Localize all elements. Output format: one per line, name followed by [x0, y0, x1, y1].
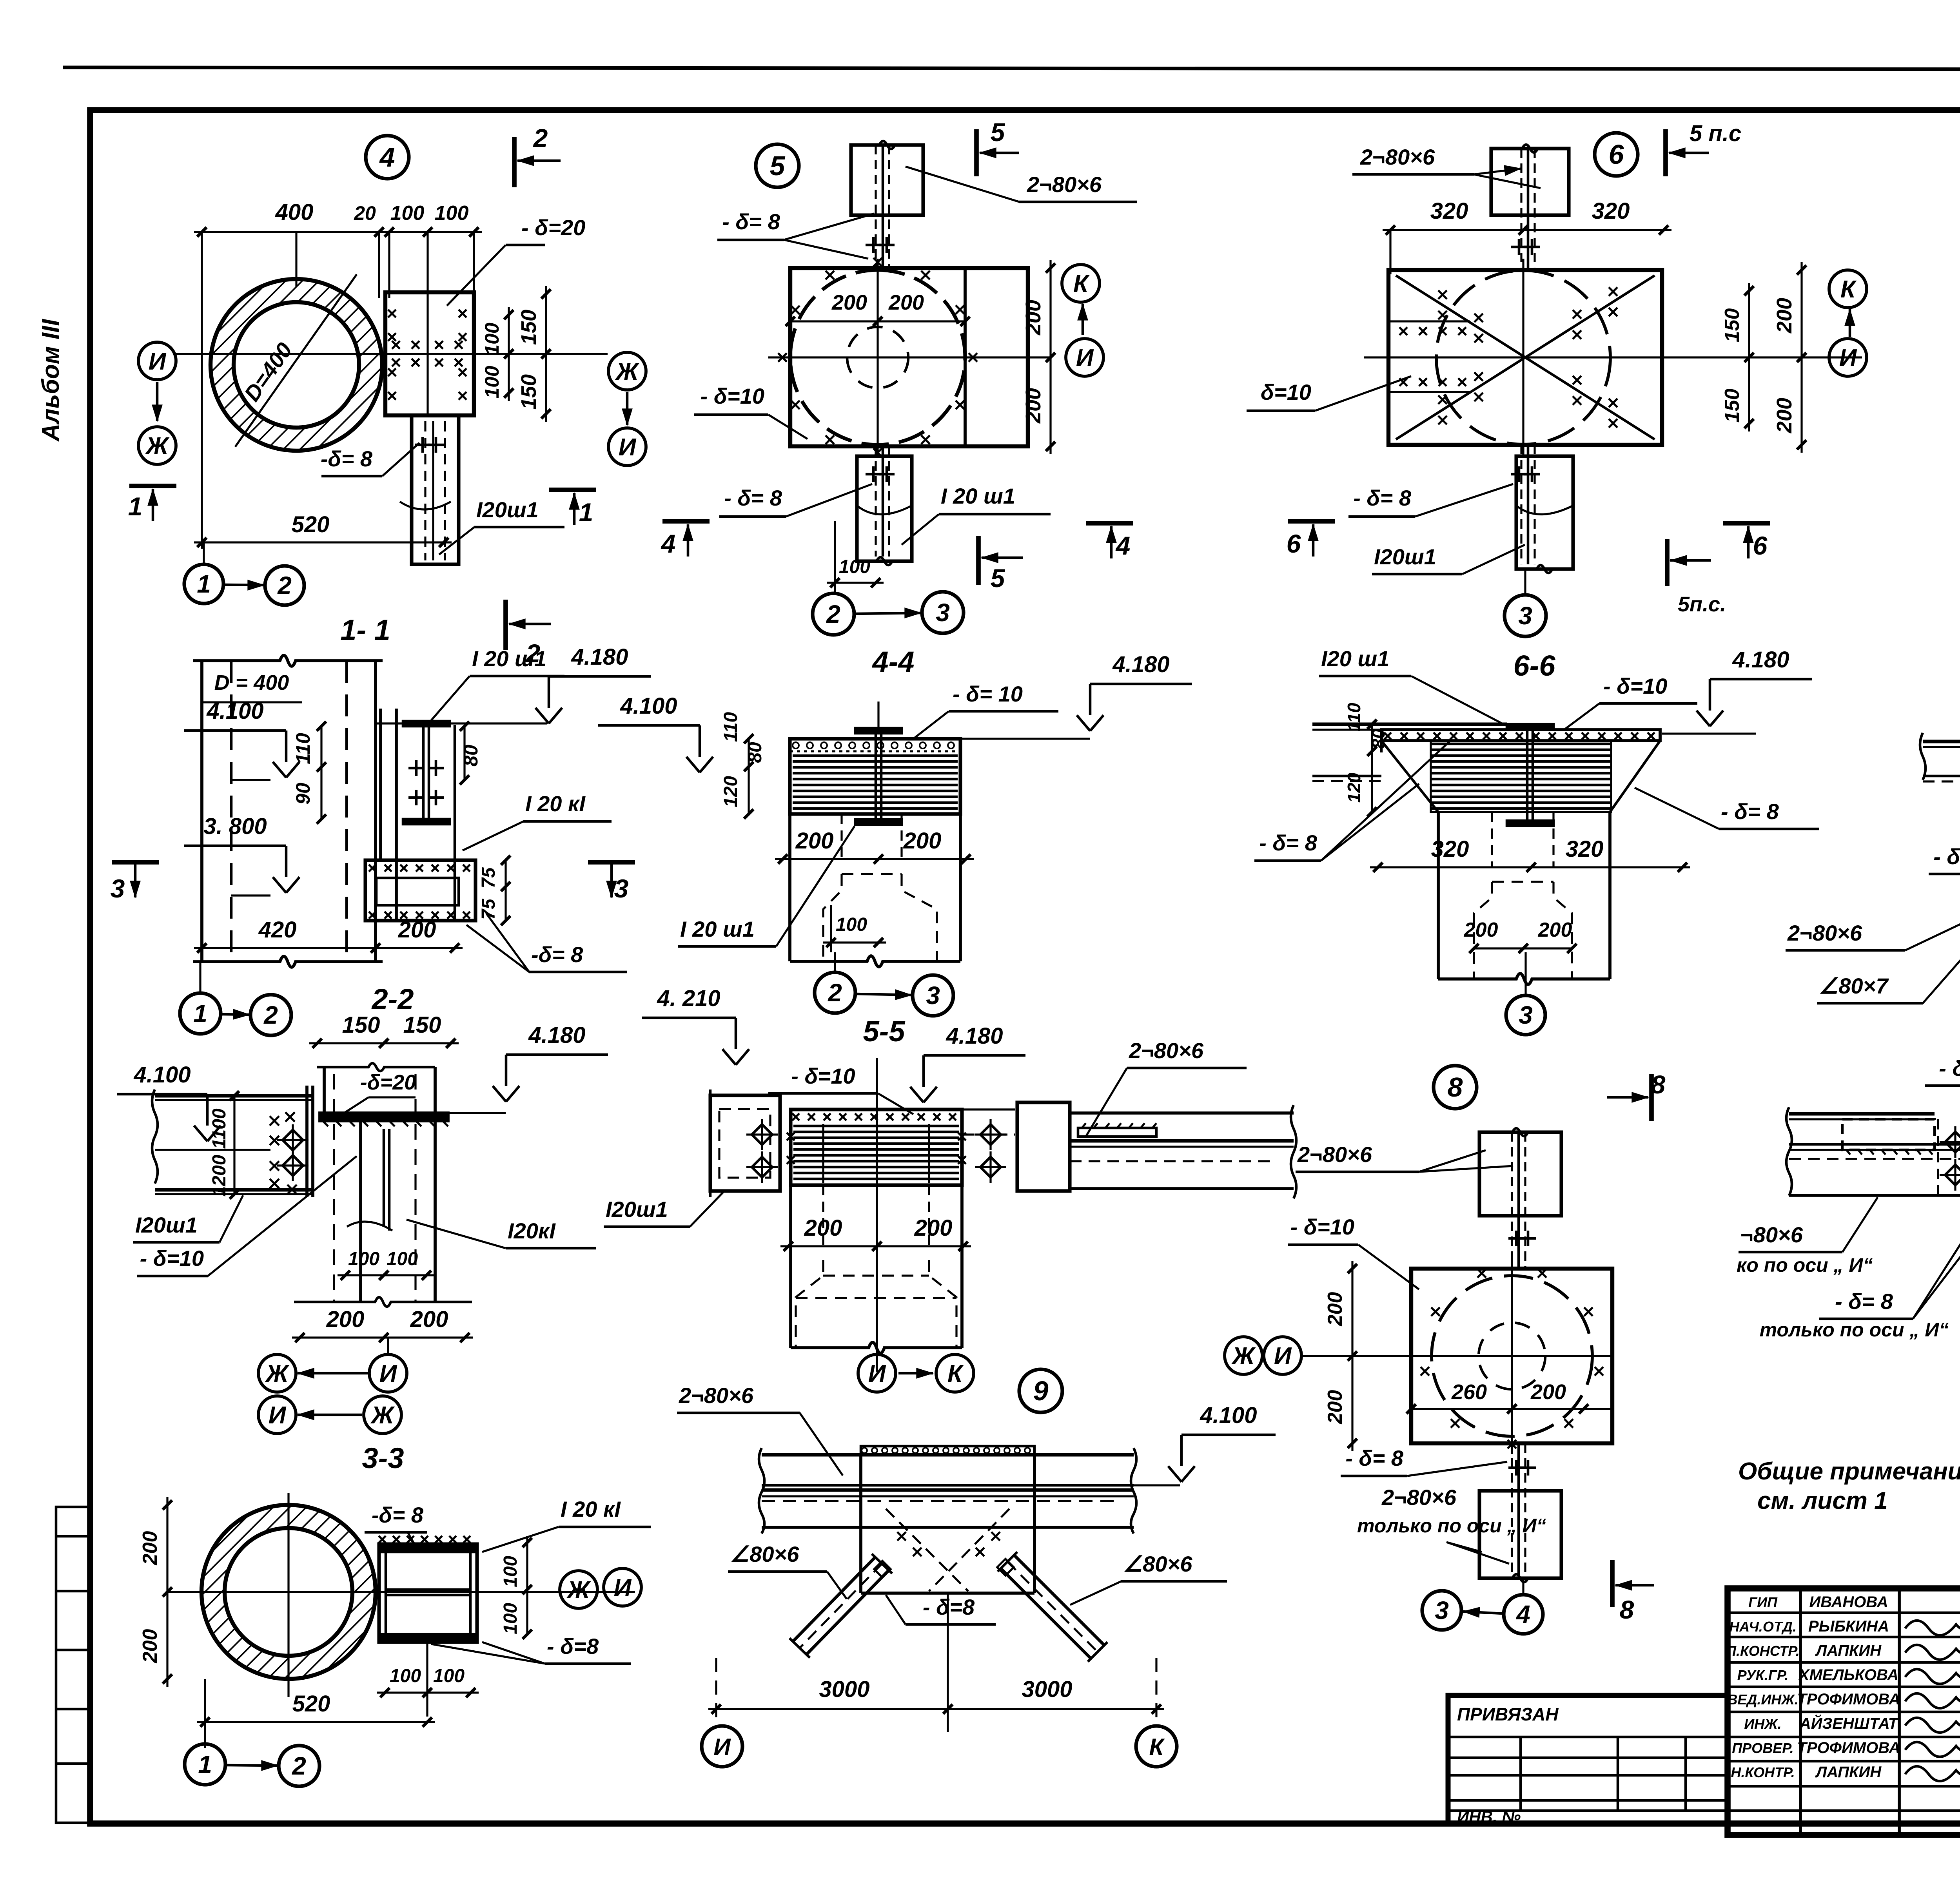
svg-text:2: 2 [828, 979, 842, 1007]
svg-text:4. 210: 4. 210 [657, 986, 720, 1011]
section mark 4 left [662, 519, 710, 524]
svg-text:К: К [1840, 276, 1857, 303]
svg-text:100: 100 [839, 557, 870, 577]
svg-text:3. 800: 3. 800 [203, 814, 267, 839]
section 2-2 dims 1100 1200 [233, 1096, 235, 1194]
svg-text:только по оси „ И“: только по оси „ И“ [1357, 1515, 1546, 1537]
svg-text:200: 200 [1538, 919, 1572, 941]
node 6 diagonal gusset braces [1396, 276, 1655, 439]
section mark 2 top [512, 137, 517, 187]
svg-text:Ж: Ж [145, 433, 170, 460]
section 1-1 dim chain 75 75 [505, 860, 506, 921]
node 4 right dim chain 100 100 [508, 307, 510, 401]
svg-text:I 20 кI: I 20 кI [525, 791, 586, 816]
section 8-8 left upper block [1842, 1119, 1935, 1150]
section 5-5 left beam block [710, 1095, 780, 1191]
node 5 base plate [790, 268, 1028, 446]
node 5 dim 100 bottom [834, 521, 836, 592]
node marker circle 4 [366, 136, 409, 179]
node 5 axis circle И [1066, 339, 1103, 376]
node 9 gusset diagonals [886, 1509, 968, 1591]
svg-text:80: 80 [460, 745, 482, 767]
svg-text:I20ш1: I20ш1 [1374, 544, 1436, 569]
section mark 1 left [129, 484, 176, 488]
section 2-2 bottom dims 200 200 [292, 1336, 473, 1338]
svg-text:520: 520 [292, 512, 330, 537]
svg-text:3: 3 [1519, 1001, 1533, 1029]
section 5-5 dashed pedestal [796, 1260, 823, 1348]
svg-text:- δ=10: - δ=10 [1939, 1056, 1960, 1080]
section mark 3 right [588, 860, 635, 865]
section mark 5ps top [1663, 129, 1668, 176]
node 5 column above [851, 145, 923, 215]
section 2-2 top dims 150 150 [309, 1042, 459, 1044]
svg-text:РУК.ГР.: РУК.ГР. [1737, 1667, 1789, 1683]
svg-text:I 20 ш1: I 20 ш1 [680, 917, 755, 941]
node 5 axis circle K [1062, 265, 1100, 302]
svg-text:ПРИВЯЗАН: ПРИВЯЗАН [1457, 1704, 1559, 1724]
svg-text:2-2: 2-2 [371, 983, 414, 1015]
attachment table grid [1448, 1736, 1728, 1738]
node 8 column below [1479, 1491, 1561, 1578]
svg-text:2: 2 [277, 571, 292, 600]
svg-text:4-4: 4-4 [872, 645, 915, 678]
svg-text:∠80×7: ∠80×7 [1819, 973, 1889, 998]
svg-text:9: 9 [1033, 1376, 1049, 1406]
section mark 1 right [549, 488, 596, 492]
node 4 column below [412, 415, 459, 564]
svg-text:4.180: 4.180 [1112, 652, 1169, 677]
section 5-5 weld x left edge [787, 1133, 795, 1140]
svg-text:- δ=10: - δ=10 [1603, 674, 1667, 698]
section 5-5 center axis line [876, 1058, 878, 1372]
svg-text:Ж: Ж [1231, 1343, 1256, 1370]
node 6 column above [1491, 149, 1569, 215]
node 4 top dimension chain 400-20-100-100 [194, 231, 387, 233]
svg-text:2¬80×6: 2¬80×6 [1381, 1485, 1457, 1510]
svg-text:- δ=10: - δ=10 [791, 1064, 855, 1088]
svg-text:4: 4 [661, 529, 676, 558]
detail 3-3 bottom dims 100 100 [377, 1691, 479, 1693]
svg-text:-δ= 8: -δ= 8 [372, 1503, 424, 1527]
svg-text:8: 8 [1448, 1072, 1463, 1102]
node 4 axis circle Ж left [138, 427, 176, 464]
svg-text:ИВАНОВА: ИВАНОВА [1809, 1593, 1888, 1611]
node marker circle 6 [1595, 133, 1638, 176]
svg-text:-δ= 8: -δ= 8 [531, 942, 583, 967]
section mark 8 bottom [1610, 1560, 1615, 1607]
section 2-2 end plate pair [305, 1086, 309, 1197]
svg-text:И: И [379, 1360, 397, 1387]
svg-text:150: 150 [1721, 389, 1744, 423]
svg-text:2: 2 [826, 600, 840, 628]
svg-text:δ=10: δ=10 [1261, 380, 1311, 404]
node 6 axis circle K [1829, 270, 1867, 308]
svg-text:5-5: 5-5 [863, 1015, 906, 1048]
svg-text:ВЕД.ИНЖ.: ВЕД.ИНЖ. [1727, 1691, 1798, 1708]
section 4-4 bottom break [790, 956, 960, 967]
node 8 column above [1479, 1132, 1561, 1216]
svg-text:6: 6 [1287, 529, 1301, 558]
svg-text:- δ= 8: - δ= 8 [722, 209, 780, 234]
svg-text:150: 150 [403, 1012, 441, 1038]
section mark 5ps bottom [1665, 539, 1670, 586]
section 7-7 left beam [1923, 740, 1960, 743]
svg-text:1: 1 [197, 570, 211, 598]
svg-text:I20 ш1: I20 ш1 [1321, 646, 1389, 671]
svg-text:∠80×6: ∠80×6 [730, 1542, 799, 1566]
svg-text:ИНЖ.: ИНЖ. [1744, 1716, 1781, 1732]
section 2-2 web wavy cut [347, 1222, 392, 1231]
svg-text:200: 200 [1324, 1390, 1347, 1425]
section 1-1 channel bracket [365, 860, 475, 921]
svg-text:Ж: Ж [265, 1360, 290, 1387]
detail 3-3 dim 520 [197, 1721, 435, 1723]
svg-text:К: К [947, 1360, 964, 1387]
svg-text:- δ= 8: - δ= 8 [1835, 1289, 1893, 1314]
svg-text:200: 200 [398, 917, 436, 943]
svg-text:- δ= 8: - δ= 8 [1353, 486, 1412, 510]
section 1-1 dim chain 110 90 [320, 726, 322, 819]
node 9 left brace [806, 1570, 889, 1655]
svg-text:I20ш1: I20ш1 [606, 1197, 668, 1222]
section 6-6 hatched cap with wings [1431, 741, 1611, 812]
svg-text:3: 3 [936, 598, 950, 627]
svg-text:4.180: 4.180 [1732, 647, 1789, 673]
node 9 right brace [1014, 1555, 1104, 1645]
svg-text:520: 520 [292, 1691, 330, 1717]
svg-text:120: 120 [720, 776, 741, 807]
section 1-1 dim 80 [463, 726, 465, 780]
node 6 top dims 320 320 [1383, 229, 1671, 231]
svg-text:П.КОНСТР.: П.КОНСТР. [1726, 1643, 1800, 1659]
svg-text:200: 200 [903, 828, 942, 854]
section mark 6 right [1723, 521, 1770, 526]
node 6 right dim chain 150 150 [1748, 283, 1750, 431]
svg-text:ЛАПКИН: ЛАПКИН [1815, 1642, 1882, 1659]
svg-text:I20ш1: I20ш1 [135, 1213, 198, 1237]
detail 3-3 right dim chain 100 100 [526, 1536, 528, 1634]
svg-text:4.100: 4.100 [206, 698, 263, 724]
svg-text:200: 200 [1022, 300, 1045, 335]
svg-text:ПРОВЕР.: ПРОВЕР. [1732, 1740, 1793, 1756]
svg-text:200: 200 [1022, 388, 1045, 424]
node 9 axis circle К [1136, 1726, 1177, 1767]
svg-text:100: 100 [348, 1249, 379, 1269]
svg-text:∠80×6: ∠80×6 [1123, 1552, 1192, 1576]
section 4-4 dim chain 110 80 120 [748, 739, 750, 814]
svg-text:2¬80×6: 2¬80×6 [1027, 172, 1102, 197]
svg-text:4: 4 [1115, 531, 1131, 560]
svg-text:4: 4 [1515, 1600, 1530, 1628]
svg-text:ТРОФИМОВА: ТРОФИМОВА [1797, 1739, 1900, 1757]
svg-text:3000: 3000 [1022, 1677, 1072, 1702]
svg-text:150: 150 [342, 1012, 380, 1038]
node 8 base plate [1411, 1269, 1612, 1443]
svg-text:80: 80 [1368, 729, 1388, 749]
section 6-6 dashed pedestal [1474, 882, 1492, 979]
node 8 axis circles 3-4 [1422, 1591, 1461, 1630]
section mark 4 right [1086, 521, 1133, 526]
svg-text:100: 100 [433, 1666, 465, 1686]
svg-text:6: 6 [1753, 531, 1768, 560]
svg-text:100: 100 [836, 914, 867, 935]
svg-text:100: 100 [500, 1603, 521, 1634]
svg-text:1- 1: 1- 1 [340, 614, 390, 646]
node 5 inner dashed circle [847, 327, 908, 388]
svg-text:1: 1 [198, 1750, 212, 1778]
svg-text:3: 3 [111, 874, 125, 903]
svg-text:3: 3 [1518, 602, 1532, 630]
section 1-1 steel I-beam [403, 721, 450, 726]
svg-text:4: 4 [379, 142, 395, 172]
section 1-1 concrete column edges [200, 661, 203, 962]
svg-text:И: И [619, 434, 637, 461]
svg-text:2¬80×6: 2¬80×6 [1360, 145, 1435, 169]
svg-text:4.180: 4.180 [946, 1023, 1003, 1049]
section 2-2 beam I20ш1 from left [155, 1094, 313, 1097]
svg-text:Ж: Ж [370, 1402, 395, 1429]
svg-text:- δ=10: - δ=10 [1290, 1215, 1354, 1239]
node 9 dims 3000 3000 [708, 1708, 1164, 1710]
node 6 axis circle И [1829, 339, 1867, 376]
svg-text:ИНВ. №: ИНВ. № [1457, 1807, 1521, 1826]
svg-text:200: 200 [326, 1307, 365, 1332]
svg-text:D = 400: D = 400 [214, 671, 289, 694]
node 4 axis circle И left [138, 342, 176, 380]
svg-text:4.180: 4.180 [571, 644, 628, 670]
svg-text:200: 200 [1324, 1292, 1347, 1327]
node 9 top plate strip [861, 1446, 1034, 1455]
svg-text:100: 100 [387, 1249, 418, 1269]
svg-text:150: 150 [517, 310, 541, 345]
svg-text:3: 3 [1435, 1596, 1449, 1624]
svg-text:5: 5 [770, 150, 786, 181]
svg-text:100: 100 [500, 1556, 521, 1587]
svg-text:120: 120 [1344, 772, 1364, 803]
title block staff rows [1728, 1612, 1960, 1614]
svg-text:200: 200 [139, 1629, 162, 1664]
svg-text:I20ш1: I20ш1 [476, 497, 539, 522]
node 5 right dim chain 200 200 [1049, 260, 1051, 454]
svg-text:ХМЕЛЬКОВА: ХМЕЛЬКОВА [1798, 1666, 1898, 1684]
svg-text:ГИП: ГИП [1748, 1594, 1778, 1610]
svg-text:200: 200 [831, 291, 867, 314]
svg-text:4.180: 4.180 [528, 1022, 585, 1048]
svg-text:200: 200 [410, 1307, 448, 1332]
section mark 2 bottom [503, 600, 508, 650]
svg-text:320: 320 [1431, 836, 1469, 862]
svg-text:-δ=20: -δ=20 [360, 1071, 416, 1094]
node 4 bottom dim 520 [194, 541, 452, 543]
svg-text:3-3: 3-3 [362, 1442, 404, 1474]
node 4 concrete pile ring [211, 279, 382, 451]
svg-text:200: 200 [888, 291, 924, 314]
node 4 gusset plate [385, 292, 474, 415]
node 4 axis circle Ж right [608, 352, 646, 390]
svg-text:4.100: 4.100 [133, 1062, 191, 1088]
node 8 inner dashed circle [1479, 1323, 1545, 1389]
svg-text:1: 1 [128, 492, 143, 521]
svg-text:Н.КОНТР.: Н.КОНТР. [1731, 1764, 1795, 1780]
svg-text:I 20 ш1: I 20 ш1 [472, 646, 546, 671]
svg-text:И: И [1274, 1343, 1292, 1370]
node 5 axis circles 2-3 [813, 593, 854, 635]
svg-text:НАЧ.ОТД.: НАЧ.ОТД. [1729, 1619, 1797, 1635]
svg-text:100: 100 [481, 366, 503, 399]
svg-text:ко по оси „ И“: ко по оси „ И“ [1737, 1254, 1873, 1276]
svg-text:320: 320 [1566, 836, 1604, 862]
svg-text:200: 200 [1773, 298, 1796, 334]
svg-text:И: И [269, 1402, 287, 1429]
left margin strip table [56, 1507, 90, 1823]
axis circle 3 under 6-6 [1506, 995, 1545, 1035]
svg-text:2: 2 [263, 1001, 278, 1029]
svg-text:Альбом III: Альбом III [37, 319, 64, 442]
svg-text:80: 80 [745, 742, 766, 763]
svg-text:100: 100 [435, 202, 469, 225]
section 6-6 dim chain 110 80 120 [1371, 724, 1373, 812]
title block left column dividers [1799, 1588, 1802, 1835]
svg-text:90: 90 [292, 783, 314, 805]
svg-text:100: 100 [390, 202, 425, 225]
title block outer frame [1728, 1588, 1960, 1835]
svg-text:6: 6 [1609, 139, 1624, 170]
svg-text:- δ= 8: - δ= 8 [1259, 830, 1318, 855]
svg-text:110: 110 [720, 712, 741, 742]
section 5-5 bottom break [791, 1342, 962, 1353]
svg-text:260: 260 [1451, 1380, 1487, 1404]
section 6-6 left beam [1312, 722, 1507, 726]
section 1-1 bottom dims 420 200 [194, 947, 383, 949]
section mark 5 bottom [976, 536, 981, 585]
svg-text:200: 200 [1773, 398, 1796, 433]
node 9 beam [762, 1453, 1134, 1456]
section 6-6 cap top plate [1381, 730, 1660, 741]
svg-text:75: 75 [478, 867, 499, 888]
section 4-4 dashed pedestal [823, 874, 842, 961]
section 2-2 column bottom break [294, 1297, 472, 1307]
svg-text:100: 100 [390, 1666, 421, 1686]
axis circles 1-2 under 3-3 [185, 1744, 225, 1785]
svg-text:- δ= 8: - δ= 8 [1721, 799, 1779, 824]
node 5 shaft circle solid [790, 270, 965, 445]
svg-text:Ж: Ж [566, 1577, 591, 1604]
svg-text:3: 3 [614, 874, 629, 903]
svg-text:АЙЗЕНШТАТ: АЙЗЕНШТАТ [1799, 1714, 1899, 1732]
svg-text:- δ=10: - δ=10 [140, 1246, 204, 1271]
node marker circle 8 [1434, 1066, 1477, 1109]
section 8-8 left beam [1789, 1112, 1935, 1115]
svg-text:2¬80×6: 2¬80×6 [1129, 1038, 1204, 1063]
section 2-2 dims 100 100 [338, 1274, 434, 1276]
svg-text:110: 110 [292, 733, 314, 764]
section 6-6 column body [1437, 812, 1440, 979]
svg-text:420: 420 [258, 917, 297, 943]
node 4 axis line horizontal [176, 353, 608, 355]
svg-text:I 20 ш1: I 20 ш1 [941, 484, 1015, 508]
axis circles 1-2 under section 1-1 [180, 993, 221, 1034]
detail 3-3 concrete ring [201, 1505, 376, 1679]
node 4 axis circles 1-2 [184, 564, 223, 604]
svg-text:200: 200 [1464, 919, 1498, 941]
node 6 dashed circle [1436, 270, 1610, 444]
svg-text:ЛАПКИН: ЛАПКИН [1815, 1764, 1882, 1781]
section 5-5 right beam [1070, 1111, 1294, 1115]
node 6 right dim chain 200 200 [1800, 262, 1802, 453]
svg-text:К: К [1149, 1734, 1165, 1760]
svg-text:200: 200 [914, 1215, 953, 1241]
svg-text:320: 320 [1592, 198, 1630, 224]
section 4-4 I-beam top [855, 728, 902, 733]
svg-text:200: 200 [804, 1215, 842, 1241]
svg-text:5п.с.: 5п.с. [1678, 593, 1726, 616]
svg-text:150: 150 [517, 374, 541, 410]
node 8 left dim chain 200 200 [1351, 1261, 1353, 1451]
node 6 base plate [1388, 270, 1662, 445]
node 4 diameter line with D=400 [235, 274, 357, 447]
attachment table outer [1448, 1695, 1728, 1824]
section mark 6 left [1288, 519, 1335, 524]
svg-text:I 20 кI: I 20 кI [561, 1497, 621, 1521]
axis circles И-К under 5-5 [858, 1354, 896, 1392]
section 6-6 I-beam center [1507, 724, 1553, 729]
svg-text:5: 5 [991, 118, 1005, 147]
svg-text:И: И [713, 1734, 731, 1760]
svg-text:- δ= 8: - δ= 8 [1933, 844, 1960, 869]
svg-text:I20кI: I20кI [508, 1218, 556, 1243]
svg-text:И: И [614, 1574, 632, 1601]
node 9 gusset plate [859, 1455, 862, 1593]
svg-text:Общие примечания и условн: Общие примечания и условные обозначения [1738, 1458, 1960, 1485]
svg-text:И: И [1076, 344, 1094, 372]
svg-text:100: 100 [481, 323, 503, 355]
svg-text:4.100: 4.100 [620, 693, 677, 719]
svg-text:1200: 1200 [209, 1155, 230, 1196]
axis circles 2-3 under 4-4 [815, 972, 855, 1013]
svg-text:6-6: 6-6 [1514, 649, 1556, 682]
section 1-1 top break line [193, 655, 383, 666]
svg-text:20: 20 [354, 202, 376, 224]
svg-text:Ж: Ж [615, 358, 640, 385]
section 2-2 column top [323, 1067, 326, 1113]
section 6-6 dims 320 320 [1370, 866, 1690, 868]
svg-text:110: 110 [1344, 703, 1364, 732]
svg-text:5: 5 [991, 564, 1005, 593]
svg-text:3: 3 [926, 981, 940, 1010]
svg-text:К: К [1073, 270, 1090, 297]
svg-text:-δ= 8: -δ= 8 [321, 446, 373, 471]
section 4-4 dims 200 200 [775, 858, 974, 860]
svg-text:- δ= 8: - δ= 8 [1345, 1446, 1404, 1470]
sheet top edge line [63, 67, 1960, 70]
section 5-5 right connection [1017, 1102, 1070, 1191]
detail 3-3 channel assembly [379, 1544, 477, 1642]
node 6 column below [1516, 456, 1573, 569]
axis circles Ж-И row 1 [258, 1354, 296, 1392]
svg-text:- δ=10: - δ=10 [701, 384, 764, 408]
svg-text:2¬80×6: 2¬80×6 [679, 1383, 754, 1408]
node 4 right dim chain 150 150 [545, 286, 547, 422]
section mark 5 top [974, 129, 979, 176]
section 6-6 bottom break [1438, 973, 1610, 984]
svg-text:1: 1 [193, 999, 207, 1028]
svg-text:200: 200 [139, 1531, 162, 1566]
section 5-5 hatched cap [791, 1109, 962, 1185]
svg-text:см. лист 1: см. лист 1 [1757, 1487, 1888, 1514]
section mark 3 left [112, 860, 159, 865]
svg-text:2: 2 [292, 1752, 306, 1780]
